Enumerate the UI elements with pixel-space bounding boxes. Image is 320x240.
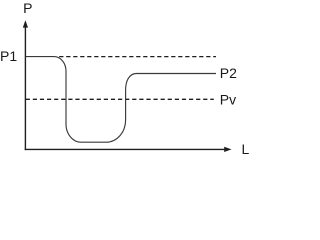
dashed line P1 level: [59, 56, 216, 58]
axis P (vertical): [24, 22, 26, 150]
axis L (horizontal): [25, 148, 226, 150]
svg-text:L: L: [242, 141, 250, 157]
svg-text:Pv: Pv: [220, 92, 236, 108]
svg-text:P: P: [23, 0, 32, 16]
pressure curve: [26, 57, 216, 143]
arrowhead L axis: [224, 147, 231, 152]
svg-text:P2: P2: [220, 65, 237, 81]
arrowhead P axis: [23, 20, 28, 27]
dashed line Pv level: [26, 98, 214, 100]
svg-text:P1: P1: [0, 48, 17, 64]
